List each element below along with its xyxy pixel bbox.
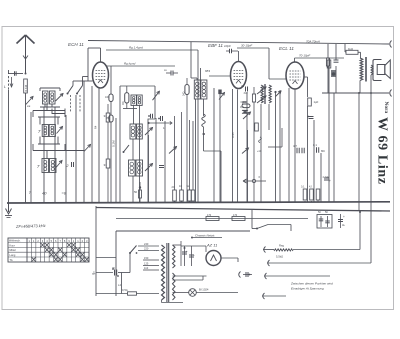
- label Rg kund: [124, 62, 136, 66]
- capacitor pair 0,1b: [313, 143, 319, 153]
- speaker: [373, 60, 390, 81]
- wire feedback loop 2: [267, 211, 371, 267]
- svg-text:0,1: 0,1: [301, 186, 305, 189]
- IF can 2 coils: [194, 80, 207, 99]
- wire AF corner: [268, 128, 282, 147]
- svg-text:0,1M: 0,1M: [24, 84, 28, 91]
- label 10pF: [224, 44, 231, 48]
- svg-text:100: 100: [105, 96, 110, 99]
- svg-text:883: 883: [205, 69, 210, 73]
- wire bus drop x252: [251, 210, 253, 229]
- wire column x165: [164, 121, 166, 203]
- capacitor 10pF grid: [226, 49, 238, 54]
- table wave-band switch chart: [8, 238, 89, 262]
- wire T1 drops: [134, 106, 149, 203]
- heater callout line 3: [262, 293, 286, 299]
- svg-text:M0,: M0,: [122, 101, 125, 105]
- pilot lamp: [173, 289, 239, 297]
- wire column x156: [155, 118, 157, 203]
- svg-text:Wellensch.: Wellensch.: [9, 240, 21, 243]
- resistor 1k output: [346, 47, 358, 54]
- svg-text:3nF: 3nF: [244, 92, 249, 95]
- capacitor mid x161: [159, 166, 164, 168]
- resistor 0,1M antenna shunt: [24, 79, 28, 93]
- transformer taps: [138, 246, 159, 270]
- svg-text:0,5A: 0,5A: [122, 288, 128, 292]
- svg-text:30·10pF: 30·10pF: [241, 44, 252, 48]
- resistor Reg 5,5k zig: [274, 244, 293, 259]
- capacitor 0,1 left: [240, 102, 247, 109]
- trimmer capacitor L7: [145, 164, 153, 172]
- svg-text:TA: TA: [10, 258, 13, 262]
- capacitor pair 4,7: [293, 144, 304, 153]
- svg-text:=: =: [93, 270, 95, 274]
- trimmer capacitor 1a: [26, 97, 33, 109]
- label Chassis Netztr: [191, 234, 222, 239]
- svg-text:Mittel: Mittel: [10, 248, 17, 252]
- label 0,1M rotated: [112, 140, 116, 147]
- wire y48 link: [237, 44, 269, 80]
- resistor x108 upper: [106, 113, 110, 159]
- wire U-link below coils: [52, 109, 65, 114]
- wire ECL11 anode right: [304, 77, 308, 203]
- tap labels: [144, 242, 149, 270]
- trimmer IF3 upper: [257, 87, 266, 94]
- wire curl detector: [257, 137, 329, 179]
- svg-text:0,1M: 0,1M: [112, 140, 116, 147]
- capacitor x326 plus: [324, 178, 331, 183]
- wire dashed column x76: [75, 95, 77, 203]
- svg-text:Reg: Reg: [279, 244, 284, 248]
- ground bus: [7, 202, 390, 203]
- svg-text:1a: 1a: [27, 104, 31, 108]
- capacitor IF3 base: [241, 84, 248, 92]
- label Rg 1,4und: [129, 46, 143, 50]
- wire AVC tap y123: [147, 121, 172, 130]
- wire column x84: [83, 81, 85, 203]
- svg-text:ZF=468/473 kHz: ZF=468/473 kHz: [15, 223, 46, 229]
- wire L6 L7 column: [132, 139, 134, 203]
- svg-text:+: +: [329, 179, 331, 183]
- label 70A 70mA: [306, 40, 320, 44]
- resistor 0,3M det: [255, 102, 259, 131]
- label W 69 Linz: [375, 117, 390, 184]
- wire L2 tap down: [43, 107, 45, 203]
- wire left column x66: [65, 115, 67, 203]
- heater bus sloped: [96, 208, 390, 212]
- power transformer: [162, 243, 176, 302]
- wire osc cross lower: [33, 137, 84, 159]
- wire ECH11 grid left: [88, 80, 93, 82]
- wire antenna line down to bus: [25, 93, 27, 203]
- resistor x108 lower: [106, 104, 110, 203]
- wire osc cross upper: [33, 104, 65, 125]
- wire drops misc: [31, 112, 116, 203]
- coil L2 bandfilter: [43, 91, 49, 104]
- wire column x371: [358, 92, 372, 211]
- labels right group: [301, 186, 312, 189]
- wire osc bottom link: [123, 106, 155, 126]
- wire top HT bus: [88, 41, 392, 48]
- capacitor electrolytic 5uF b: [189, 246, 195, 266]
- output transformer: [358, 52, 373, 81]
- label Bl 1024: [199, 288, 209, 292]
- switch mains on pot: [252, 225, 291, 232]
- label 31b right: [104, 163, 108, 167]
- antenna: [17, 35, 35, 73]
- svg-text:L: L: [4, 85, 6, 89]
- arrow AF takeoff: [243, 179, 266, 183]
- svg-text:10pF: 10pF: [224, 44, 231, 48]
- fuse 0,5A: [96, 288, 159, 295]
- wire ECL11 grid: [269, 78, 286, 80]
- resistor 34D pill: [183, 78, 190, 203]
- switch contact S1a: [67, 86, 74, 95]
- wire HT secondary top: [173, 241, 182, 266]
- wire antenna lead-in horizontal: [8, 73, 23, 75]
- capacitor blob EBF: [218, 90, 224, 100]
- capacitor antenna series: [15, 71, 17, 76]
- label ZF: [15, 223, 46, 229]
- wire screen bus y50: [106, 50, 198, 203]
- coil L3 bandfilter: [50, 91, 56, 104]
- wire EBF11 top: [238, 51, 240, 62]
- coil L5 oscillator lower: [37, 159, 56, 173]
- wire IF2 column: [196, 99, 204, 203]
- wire L3 tap down: [54, 107, 56, 203]
- wire osc section top: [120, 86, 155, 203]
- svg-text:Rg 1,4µnd: Rg 1,4µnd: [129, 46, 143, 50]
- label am: [92, 272, 97, 276]
- tube ECH11: [93, 62, 109, 88]
- svg-text:+: +: [343, 215, 345, 219]
- capacitor 50 with plus: [134, 182, 142, 203]
- resistor screen x328: [326, 44, 329, 93]
- padder capacitor 2: [66, 162, 74, 168]
- label 8 bottom: [62, 191, 67, 196]
- wire column x314: [313, 120, 315, 203]
- labels resistor group: [172, 184, 190, 189]
- capacitor mains: [112, 266, 119, 277]
- svg-text:220: 220: [144, 247, 149, 251]
- heater callout line 1: [264, 273, 330, 279]
- wire switch linkage dashed: [71, 95, 81, 112]
- wire mains lead: [96, 272, 113, 274]
- capacitor block 50uF: [317, 211, 332, 228]
- wire ECH11 box: [88, 48, 101, 81]
- svg-text:+: +: [193, 253, 195, 257]
- wire EBF11 grid feed: [209, 75, 231, 77]
- svg-text:170: 170: [233, 214, 238, 217]
- trimmer capacitor across L3: [56, 94, 64, 102]
- svg-text:7F: 7F: [112, 266, 115, 270]
- resistor 0,3M horizontal: [241, 92, 251, 108]
- trimmer arrow mid: [84, 145, 91, 152]
- label 883: [205, 69, 210, 73]
- svg-text:2: 2: [66, 164, 69, 168]
- wire column x321: [320, 153, 322, 203]
- capacitor x311 pair: [307, 116, 313, 119]
- trimmer IF3 lower: [257, 96, 266, 103]
- wire ECH11 cathode down: [94, 88, 100, 203]
- svg-text:1kΩ: 1kΩ: [348, 47, 353, 51]
- power box outline: [116, 231, 250, 296]
- trimmer capacitor osc lower: [56, 161, 62, 168]
- wire feedback loop 1: [263, 211, 361, 253]
- tube AZ11: [206, 251, 221, 266]
- svg-text:+1C: +1C: [257, 150, 262, 153]
- svg-text:+: +: [186, 249, 188, 253]
- wire column x214: [213, 88, 215, 203]
- svg-text:ECH 11: ECH 11: [68, 42, 84, 47]
- wire column x359: [358, 93, 360, 211]
- wire switch S1b feed: [83, 77, 89, 86]
- svg-text:5,5kΩ: 5,5kΩ: [276, 255, 283, 259]
- wire rectifier link: [181, 246, 206, 252]
- wire column x197b: [191, 121, 195, 201]
- wire transformer bottom: [162, 300, 184, 303]
- svg-text:Kurz: Kurz: [10, 243, 16, 247]
- svg-text:Lang: Lang: [10, 253, 16, 257]
- svg-text:Nora: Nora: [383, 102, 389, 114]
- label tube ECL 11: [279, 46, 294, 51]
- switch contact S1b: [76, 86, 83, 95]
- capacitor 1n top: [158, 116, 162, 121]
- label Nora: [383, 102, 389, 114]
- wire y58 link: [295, 54, 345, 63]
- svg-text:240: 240: [144, 242, 149, 246]
- label L antenna: [4, 85, 6, 89]
- wire column x334 down: [333, 93, 335, 203]
- svg-text:ECL 11: ECL 11: [279, 46, 294, 51]
- capacitor 10n coupling: [164, 69, 178, 76]
- svg-text:Zwischen diesen Punkten wird: Zwischen diesen Punkten wird: [290, 282, 333, 286]
- svg-text:50: 50: [134, 190, 138, 194]
- node antenna junction: [25, 73, 27, 75]
- potentiometer volume: [242, 130, 249, 203]
- svg-text:Bl 1024: Bl 1024: [199, 288, 209, 292]
- svg-text:170: 170: [207, 214, 212, 217]
- wire switch S1a feed: [73, 81, 88, 86]
- tube ECL11: [286, 62, 304, 89]
- resistor oval M: [122, 86, 129, 109]
- tube EBF11: [231, 62, 247, 89]
- svg-text:EBF 11: EBF 11: [208, 43, 223, 48]
- trimmer arrow below IF3: [243, 112, 251, 119]
- svg-text:8Ω: 8Ω: [321, 149, 325, 153]
- svg-text:3-45: 3-45: [231, 132, 235, 138]
- coil L6 tuning upper: [130, 124, 142, 139]
- wire column x345b: [345, 44, 346, 52]
- wire ECH11 pin2 down: [91, 86, 93, 203]
- trimmer capacitor T1: [153, 91, 160, 100]
- switch contact S2: [123, 145, 130, 153]
- svg-text:125: 125: [144, 262, 149, 266]
- wire coil bottom link: [40, 104, 60, 107]
- svg-text:Chassis Netztr.: Chassis Netztr.: [195, 234, 216, 238]
- voltage selector switch: [129, 246, 137, 273]
- resistor 6k8: [252, 87, 255, 203]
- wire IF3 drops: [247, 92, 269, 203]
- ground symbol: [5, 203, 12, 218]
- label tube ECH 11: [68, 42, 84, 47]
- node detector junction: [274, 91, 281, 203]
- label tube EBF 11: [208, 43, 223, 48]
- capacitor electrolytic 5uF a: [182, 246, 188, 266]
- resistor column x329: [327, 58, 331, 203]
- wire EBF cathode: [233, 89, 238, 203]
- capacitor x222 drop: [219, 94, 221, 203]
- resistor heater 1: [206, 214, 219, 221]
- svg-text:AZ 11: AZ 11: [206, 243, 217, 248]
- label 40 bottom: [42, 191, 47, 196]
- label 7 bottom: [29, 190, 32, 195]
- svg-text:=8: =8: [62, 191, 67, 196]
- trimmer capacitor L6: [145, 128, 153, 203]
- resistor heater 2: [232, 214, 245, 221]
- resistor group 20/10: [173, 112, 192, 203]
- coil L7 tuning lower: [129, 160, 143, 176]
- IF can 3 windings: [261, 84, 271, 104]
- svg-text:34D: 34D: [183, 91, 186, 96]
- wire AZ11 heater lines: [173, 276, 207, 280]
- arrow tap with capacitor: [239, 272, 252, 278]
- wire AZ11 output: [221, 258, 238, 262]
- wire speaker drops: [360, 75, 371, 93]
- capacitor bowtie: [242, 110, 248, 113]
- resistor group right: [303, 189, 320, 203]
- capacitor AL: [338, 214, 346, 228]
- wire left earth lead with dashes: [8, 70, 10, 203]
- svg-text:2n: 2n: [241, 84, 245, 88]
- svg-text:70A 70mA: 70A 70mA: [306, 40, 320, 44]
- label rotated 3-45: [231, 132, 235, 138]
- wire mains to switch: [118, 273, 130, 294]
- trimmer arrow mid right: [169, 147, 177, 154]
- wire below table: [96, 206, 116, 296]
- label eq marks: [93, 270, 95, 274]
- svg-text:0,1: 0,1: [240, 105, 244, 109]
- choke RF: [202, 114, 206, 151]
- svg-text:40: 40: [42, 191, 47, 196]
- wire bottom links: [183, 302, 238, 304]
- coil L4 oscillator upper: [38, 125, 55, 137]
- resistor 1uF box: [308, 98, 319, 106]
- wire output return y93: [322, 90, 392, 97]
- wire power sub line: [116, 218, 308, 220]
- coil T1 primary: [131, 95, 136, 105]
- arrow down on earth lead: [10, 77, 13, 87]
- svg-text:1µF: 1µF: [314, 100, 319, 104]
- svg-text:W 69 Linz: W 69 Linz: [375, 117, 390, 184]
- svg-text:70·10pF: 70·10pF: [299, 54, 310, 58]
- label 8ohm: [321, 149, 325, 153]
- wire y151 link: [204, 151, 222, 203]
- svg-text:R4: R4: [94, 125, 98, 129]
- wire grid bus y66: [107, 65, 175, 67]
- svg-text:Einadriger At Spannung: Einadriger At Spannung: [291, 287, 324, 291]
- label tube AZ 11: [206, 243, 217, 248]
- label 31 right: [104, 114, 108, 118]
- wire screen feed x191: [191, 42, 201, 80]
- resistor ECH11 grid leak: [105, 66, 113, 203]
- svg-text:Rg kµnd: Rg kµnd: [124, 62, 136, 66]
- wire ECL11 cathode: [289, 88, 295, 203]
- wire column x280: [279, 90, 281, 203]
- label Zwischen note: [290, 282, 333, 291]
- capacitor 1n corner: [148, 114, 152, 119]
- capacitor blob: [331, 70, 336, 77]
- capacitor x336 pair: [332, 44, 339, 93]
- svg-text:110: 110: [144, 266, 149, 270]
- svg-text:150: 150: [144, 256, 149, 260]
- trimmer capacitor osc upper: [57, 127, 63, 134]
- coil T1 secondary: [137, 95, 142, 105]
- wire coil top link: [40, 88, 60, 91]
